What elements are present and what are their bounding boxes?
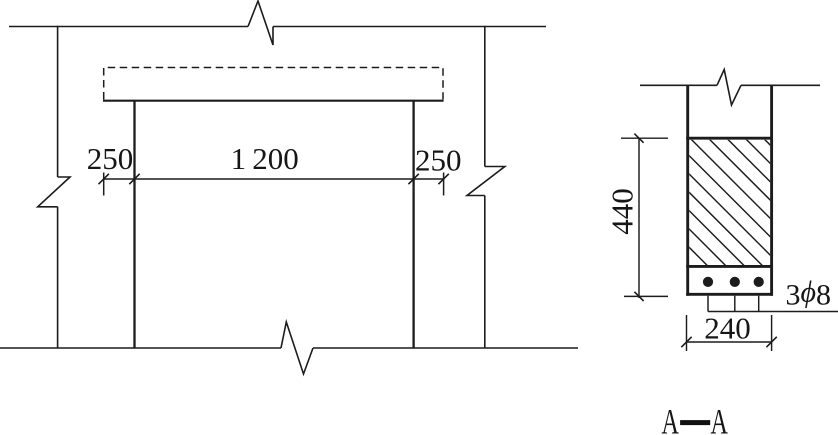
dimension 440 line bbox=[638, 138, 640, 298]
title A-A dash bbox=[680, 420, 710, 425]
dimension 440 bottom extension line bbox=[624, 295, 668, 297]
dimension 240 right tick bbox=[766, 337, 776, 347]
wall top line left segment bbox=[9, 26, 248, 28]
opening right jamb bbox=[412, 101, 414, 348]
wall bottom line left segment bbox=[0, 347, 281, 349]
rebar leader horizontal line bbox=[708, 311, 838, 313]
dimension 440 top extension line bbox=[621, 137, 668, 139]
tick at x=413.6 bbox=[408, 174, 418, 184]
wall bottom line right segment bbox=[313, 347, 578, 349]
tick at x=134.5 bbox=[129, 174, 139, 184]
left extension line bbox=[103, 173, 105, 196]
rebar dot 1 bbox=[703, 277, 713, 287]
dimension line 250/1200/250 bbox=[104, 178, 444, 180]
svg-text:250: 250 bbox=[87, 141, 134, 176]
svg-text:A: A bbox=[711, 402, 728, 435]
left wall edge break symbol bbox=[38, 177, 70, 207]
rebar dot 3 bbox=[754, 277, 764, 287]
left wall edge upper segment bbox=[57, 26, 59, 177]
tick at x=103.7 bbox=[99, 174, 109, 184]
rebar leader stem 1 bbox=[707, 296, 709, 312]
opening left jamb bbox=[133, 101, 135, 348]
lintel section bottom of hatch line bbox=[686, 265, 773, 268]
right wall edge lower segment bbox=[484, 196, 486, 349]
section top line right segment bbox=[741, 84, 820, 86]
lintel section top line bbox=[686, 137, 773, 140]
wall top line right segment bbox=[273, 26, 546, 28]
wall top line break symbol bbox=[248, 1, 273, 45]
svg-text:3ϕ8: 3ϕ8 bbox=[786, 276, 832, 312]
hatch lines of lintel section bbox=[543, 120, 838, 300]
wall bottom line break symbol bbox=[281, 322, 313, 374]
svg-text:440: 440 bbox=[605, 188, 640, 235]
dimension 240 left tick bbox=[681, 337, 691, 347]
rebar leader stem 2 bbox=[734, 296, 736, 312]
svg-text:240: 240 bbox=[704, 311, 751, 346]
rebar leader stem 3 bbox=[758, 296, 760, 312]
left wall edge lower segment bbox=[57, 207, 59, 348]
section bottom line bbox=[686, 293, 773, 296]
svg-text:1 200: 1 200 bbox=[231, 141, 299, 176]
lintel bottom solid line bbox=[103, 100, 444, 102]
section left edge bbox=[686, 85, 689, 295]
tick at x=443.6 bbox=[438, 174, 448, 184]
dimension 240 right extension line bbox=[771, 315, 773, 351]
dimension 240 left extension line bbox=[686, 315, 688, 351]
section right edge bbox=[770, 85, 773, 295]
svg-text:A: A bbox=[662, 402, 679, 435]
right wall edge upper segment bbox=[484, 26, 486, 167]
lintel dashed outline bbox=[104, 68, 443, 100]
right wall edge break symbol bbox=[467, 167, 505, 196]
section top line break symbol bbox=[717, 70, 741, 106]
svg-text:250: 250 bbox=[415, 143, 462, 178]
rebar dot 2 bbox=[730, 277, 740, 287]
dimension 440 bottom tick bbox=[634, 292, 643, 301]
dimension 440 top tick bbox=[634, 134, 643, 143]
dimension 240 line bbox=[687, 341, 772, 343]
right extension line bbox=[443, 173, 445, 196]
section top line left segment bbox=[640, 84, 717, 86]
